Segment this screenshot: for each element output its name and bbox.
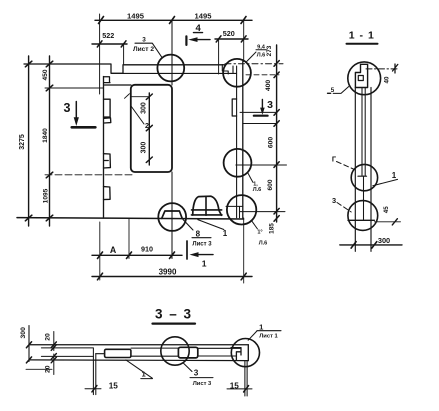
svg-text:600: 600 bbox=[267, 179, 274, 190]
svg-text:600: 600 bbox=[268, 137, 275, 149]
svg-text:520: 520 bbox=[223, 29, 235, 38]
svg-text:Л.6: Л.6 bbox=[257, 52, 266, 58]
svg-text:2: 2 bbox=[145, 123, 149, 130]
beam bottom outer line bbox=[29, 359, 248, 362]
leader C4 to L6 bbox=[251, 220, 257, 229]
opening dim slash ticks bbox=[146, 94, 152, 163]
ext line x129 bbox=[128, 218, 130, 259]
svg-text:300: 300 bbox=[141, 142, 148, 154]
svg-text:Лист 3: Лист 3 bbox=[193, 381, 212, 387]
svg-text:Лист 3: Лист 3 bbox=[192, 242, 212, 248]
dome inner verticals bbox=[205, 196, 207, 215]
ext line x218.6 bbox=[218, 39, 220, 74]
opening top edge line to panel edge bbox=[105, 84, 132, 86]
svg-text:Л.6: Л.6 bbox=[259, 241, 268, 247]
svg-text:3275: 3275 bbox=[19, 134, 26, 150]
520 slash ticks bbox=[216, 36, 246, 42]
vertical axis line x172 upper bbox=[171, 20, 173, 85]
dome chord bbox=[191, 210, 222, 215]
right ext lines bbox=[236, 112, 287, 211]
svg-text:3 – 3: 3 – 3 bbox=[155, 307, 193, 322]
522 slash ticks bbox=[97, 41, 126, 47]
svg-text:3: 3 bbox=[267, 99, 273, 111]
left dim 20 top bbox=[53, 332, 55, 351]
left dim 20 bottom bbox=[53, 354, 55, 375]
section marker 3 right arrow bbox=[261, 100, 263, 109]
leader 1 bbox=[373, 179, 398, 185]
svg-text:5: 5 bbox=[331, 87, 335, 94]
left outer dim line 3275 bbox=[28, 56, 30, 226]
panel right inner edge bbox=[236, 66, 238, 218]
leader 3/List2 to C1 bbox=[135, 43, 162, 57]
svg-text:1495: 1495 bbox=[195, 11, 213, 20]
dim 15 right verticals bbox=[245, 361, 247, 396]
beam left end vertical bbox=[28, 326, 30, 362]
leader G dashed bbox=[337, 162, 355, 170]
beam top inner line segments bbox=[41, 347, 241, 349]
svg-text:450: 450 bbox=[42, 69, 49, 80]
detail circle C2 top right bbox=[223, 59, 251, 87]
bottom dim line 300 bbox=[340, 244, 402, 246]
svg-text:400: 400 bbox=[265, 80, 272, 92]
leader 5 bbox=[333, 87, 348, 94]
svg-text:40: 40 bbox=[384, 76, 391, 83]
svg-text:3: 3 bbox=[194, 369, 199, 378]
svg-text:9,4: 9,4 bbox=[257, 44, 266, 50]
bottom dim line A 910 bbox=[92, 254, 182, 256]
svg-text:1095: 1095 bbox=[43, 188, 50, 203]
inset plate 1 bbox=[105, 349, 131, 357]
svg-text:3: 3 bbox=[332, 196, 336, 205]
panel left corner tab bbox=[104, 77, 111, 83]
beam right end cap bbox=[247, 345, 249, 361]
right dim line column bbox=[276, 45, 278, 222]
panel left edge bump B3 bbox=[104, 154, 111, 168]
beam right end hook bbox=[231, 348, 241, 361]
opening dim top ext bbox=[125, 94, 150, 99]
inset plate 2 bbox=[178, 347, 197, 358]
trapezoid shoe on bottom edge bbox=[162, 211, 183, 218]
svg-text:300: 300 bbox=[141, 102, 148, 114]
left dim 300 slashes bbox=[26, 342, 31, 363]
svg-text:300: 300 bbox=[20, 327, 27, 339]
leader 1 List1 bbox=[248, 331, 281, 341]
dim 15 left bbox=[85, 388, 101, 390]
detail circle C5 bottom left bbox=[158, 203, 186, 231]
panel left outer edge bbox=[103, 77, 105, 219]
panel top inner edge dashed right extension bbox=[246, 74, 279, 76]
svg-text:300: 300 bbox=[378, 236, 390, 245]
panel right outer edge bbox=[242, 62, 244, 219]
beam bottom inner line segments bbox=[41, 355, 236, 357]
middle junction bbox=[358, 175, 367, 177]
ext line x99.6 bbox=[99, 14, 101, 94]
right end detail circle bbox=[231, 339, 259, 367]
section marker 1 bottom bbox=[186, 241, 188, 259]
left aux line bbox=[26, 368, 52, 370]
column inner line b bbox=[364, 88, 366, 176]
svg-text:Л.6: Л.6 bbox=[253, 187, 262, 193]
svg-text:1°: 1° bbox=[257, 230, 262, 236]
bottom right ext line and tick bbox=[374, 221, 400, 223]
top dim slash ticks bbox=[99, 17, 247, 24]
bottom dim1 slash ticks bbox=[98, 252, 175, 259]
svg-text:20: 20 bbox=[44, 365, 51, 373]
leader 1 from dome bbox=[198, 220, 224, 230]
leader 9,4/L6 to C2 bbox=[246, 50, 266, 62]
ext line x99.8 bottom bbox=[99, 222, 101, 280]
opening 300 dim line bbox=[148, 93, 150, 165]
ext line x243.7 top bbox=[243, 20, 245, 61]
svg-text:20: 20 bbox=[44, 333, 51, 341]
svg-text:1: 1 bbox=[223, 229, 228, 238]
ext line x123.6 bbox=[123, 44, 125, 65]
panel top outer edge with corner notch bbox=[24, 64, 225, 73]
dim line 520 bbox=[215, 38, 248, 40]
svg-text:1 - 1: 1 - 1 bbox=[349, 30, 375, 42]
bottom dim slash ticks bbox=[351, 242, 377, 249]
svg-text:273: 273 bbox=[266, 45, 273, 56]
bottom circle detail bbox=[348, 201, 378, 231]
svg-text:3: 3 bbox=[64, 101, 71, 115]
dome shape on bottom edge bbox=[193, 196, 222, 215]
panel left edge bump B4 bbox=[104, 187, 111, 200]
left inner dim line bbox=[49, 56, 51, 226]
svg-text:3: 3 bbox=[142, 37, 146, 44]
leader 1 bbox=[126, 360, 153, 379]
ext line y88 bbox=[45, 87, 104, 89]
svg-text:3990: 3990 bbox=[159, 267, 177, 276]
column outer left line bbox=[354, 88, 356, 252]
svg-text:522: 522 bbox=[102, 31, 114, 40]
section 3-3 title underline bbox=[153, 323, 196, 325]
middle circle detail bbox=[351, 164, 377, 190]
svg-text:Г: Г bbox=[332, 155, 337, 164]
dim 15 right line bbox=[227, 388, 252, 390]
dim line 522 bbox=[92, 43, 127, 45]
panel right edge notch bbox=[232, 99, 236, 116]
top dimension line 1495+1495 bbox=[95, 19, 252, 21]
top dash-dot line and tick bbox=[366, 68, 399, 70]
leader C3 to L6 bbox=[248, 173, 253, 183]
svg-text:1: 1 bbox=[259, 322, 264, 331]
column bottom cap bbox=[348, 219, 374, 221]
ext line y175 dashed bbox=[45, 174, 135, 176]
svg-text:1: 1 bbox=[202, 259, 207, 269]
mid detail circle bbox=[161, 337, 189, 365]
svg-text:A: A bbox=[110, 245, 117, 255]
svg-text:910: 910 bbox=[141, 245, 153, 254]
svg-text:1495: 1495 bbox=[127, 11, 145, 20]
svg-text:1: 1 bbox=[392, 171, 397, 180]
detail circle C1 top bbox=[157, 55, 184, 82]
panel top inner edge bbox=[112, 72, 237, 74]
svg-text:4: 4 bbox=[196, 23, 202, 34]
svg-text:Лист 2: Лист 2 bbox=[133, 46, 154, 53]
svg-text:8: 8 bbox=[196, 230, 201, 239]
section marker 3 left arrow bbox=[75, 102, 77, 119]
beam top outer line bbox=[29, 344, 248, 346]
top bracket detail bbox=[355, 64, 367, 87]
panel bottom edge bbox=[17, 218, 244, 219]
inner bottom line near right corner bbox=[226, 206, 243, 217]
svg-text:185: 185 bbox=[268, 223, 275, 234]
bottom dim line 3990 bbox=[92, 276, 252, 278]
left outer slash ticks bbox=[25, 61, 31, 221]
panel top edge centerline dashed right extension bbox=[225, 63, 283, 65]
section marker 4 top bbox=[194, 32, 203, 34]
svg-text:Лист 1: Лист 1 bbox=[259, 333, 278, 339]
column inner line lower bbox=[363, 176, 365, 220]
opening rectangle bbox=[131, 85, 172, 172]
svg-text:1840: 1840 bbox=[42, 128, 49, 143]
bottom dim2 slash ticks bbox=[98, 273, 247, 280]
ext line x243.7 bottom bbox=[243, 218, 245, 283]
leader 8/List3 bbox=[183, 220, 211, 238]
svg-text:45: 45 bbox=[383, 206, 390, 213]
vertical axis line x172 lower bbox=[171, 172, 173, 259]
leader 3 with underline bbox=[184, 363, 214, 377]
panel left edge bump B2 bbox=[104, 99, 111, 123]
column outer right line bbox=[370, 88, 372, 252]
leader to label 2 bbox=[131, 106, 144, 124]
left inner slash ticks bbox=[46, 61, 52, 221]
right dim slash ticks bbox=[274, 61, 279, 222]
step verticals 15mm left bbox=[93, 348, 95, 394]
section 1-1 title underline bbox=[347, 43, 378, 45]
detail circle C4 right lower bbox=[227, 195, 256, 224]
svg-text:15: 15 bbox=[109, 382, 119, 391]
step connector bbox=[96, 353, 105, 355]
leader 3 dashed bbox=[337, 203, 351, 213]
top circle detail bbox=[348, 62, 381, 95]
column inner line a bbox=[361, 88, 363, 176]
svg-text:15: 15 bbox=[230, 382, 240, 391]
top right corner step detail bbox=[222, 65, 233, 74]
detail circle C3 right middle bbox=[224, 149, 252, 177]
